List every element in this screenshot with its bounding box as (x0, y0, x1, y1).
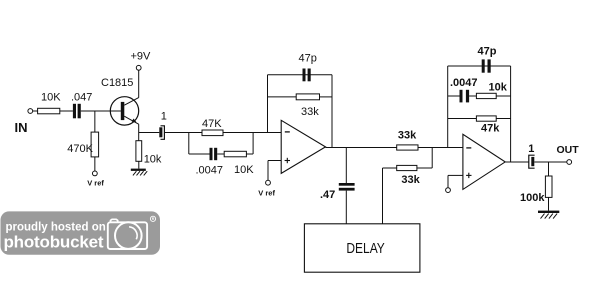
wire C2 to 47K (164, 132, 202, 134)
resistor 33k (U1 feedback) (296, 94, 319, 100)
svg-text:47k: 47k (481, 123, 500, 135)
wire .0047 to 10k (469, 95, 476, 97)
svg-text:.0047: .0047 (450, 77, 478, 89)
wire 100k to ground (548, 197, 550, 210)
svg-text:33k: 33k (301, 106, 319, 118)
capacitor 1 (coupling, polarized) (159, 126, 164, 140)
svg-text:1: 1 (161, 110, 167, 122)
capacitor .47 (339, 183, 355, 191)
resistor 47K (202, 130, 223, 136)
transistor Q1 C1815 (110, 97, 138, 125)
wire 10k to right vertical (496, 95, 510, 97)
resistor 470K (91, 132, 99, 157)
block DELAY (304, 224, 420, 272)
wire node to 470K (94, 111, 96, 132)
wire 33k top to U2 minus (418, 147, 463, 149)
svg-text:33k: 33k (398, 129, 417, 141)
resistor 10k (emitter) (136, 141, 142, 162)
wire node to 100k (548, 162, 550, 176)
wire cap to OUT terminal (534, 161, 567, 163)
terminal OUT (567, 160, 572, 165)
wire U2 feedback left vertical (447, 66, 449, 148)
wire C1 to Q1 base (81, 110, 121, 112)
svg-text:+9V: +9V (131, 50, 152, 62)
wire U1 feedback right vertical (331, 75, 333, 148)
wire join verticals (431, 148, 433, 169)
terminal U2 plus (446, 188, 451, 193)
capacitor .0047 (210, 148, 218, 160)
resistor 100k (545, 176, 552, 197)
wire U1 feedback left vertical (267, 75, 269, 133)
wire DELAY to 33k bottom (382, 168, 384, 224)
svg-text:DELAY: DELAY (346, 241, 385, 257)
wire U1 output row (326, 147, 397, 149)
ground 1 (131, 169, 147, 176)
svg-text:1: 1 (528, 143, 534, 155)
svg-text:photobucket: photobucket (4, 233, 104, 252)
wire branch down to .47 (345, 148, 347, 184)
ground 2 (538, 211, 559, 219)
wire 47K to op-amp U1 minus (223, 132, 281, 134)
resistor 10k (U2 feedback) (476, 93, 496, 98)
op-amp U1 (281, 120, 325, 173)
svg-text:OUT: OUT (557, 144, 580, 156)
wire R1 to C1 (60, 110, 73, 112)
svg-text:47K: 47K (202, 118, 222, 130)
resistor 10K (input) (38, 108, 60, 114)
resistor 33k top (397, 145, 418, 150)
wire 47k row left (448, 118, 477, 120)
input terminal IN (28, 109, 33, 114)
op-amp U2 (463, 134, 505, 189)
photobucket watermark badge (1, 211, 161, 254)
wire U1 plus input (268, 160, 281, 162)
wire +9V to collector (138, 70, 140, 97)
terminal +9V (136, 65, 141, 70)
wire branch down at node (188, 133, 190, 155)
wire U1 feedback top row (268, 74, 333, 76)
svg-text:33k: 33k (401, 174, 420, 186)
capacitor 47p (U1) (303, 69, 311, 82)
wire U2 feedback right vertical (510, 66, 512, 162)
terminal V ref 1 (92, 171, 97, 176)
svg-text:10k: 10k (489, 82, 508, 94)
wire U2 plus down (447, 175, 449, 187)
wire 470K to V ref terminal (94, 157, 96, 171)
wire 33k bottom left (383, 167, 397, 169)
svg-text:IN: IN (15, 120, 28, 135)
svg-text:10k: 10k (144, 154, 162, 166)
svg-text:.0047: .0047 (196, 165, 224, 177)
wire 33k row right (320, 96, 333, 98)
wire emitter node to 10k (138, 133, 140, 141)
capacitor .047 (73, 104, 81, 119)
wire input terminal to R1 (33, 110, 38, 112)
wire emitter down (138, 124, 140, 132)
wire 47k row right (496, 118, 510, 120)
svg-text:R: R (152, 217, 155, 221)
wire 33k row left (268, 96, 297, 98)
wire U2 output (505, 161, 529, 163)
svg-text:470K: 470K (67, 143, 93, 155)
resistor 33k bottom (397, 165, 417, 170)
resistor 47k (U2 feedback) (476, 116, 496, 121)
wire .0047 to 10K (217, 153, 224, 155)
wire 10k to ground (138, 161, 140, 168)
wire branch to .0047 (189, 153, 210, 155)
svg-text:.47: .47 (320, 189, 335, 201)
svg-text:V ref: V ref (87, 179, 104, 188)
wire U1 plus down (267, 161, 269, 181)
resistor 10K (branch) (224, 151, 246, 157)
terminal V ref 2 (266, 180, 271, 185)
wire 33k bottom right (417, 167, 432, 169)
camera icon (108, 216, 156, 249)
svg-text:100k: 100k (520, 192, 545, 204)
capacitor 1 (output, polarized) (529, 155, 535, 168)
svg-text:10K: 10K (234, 164, 254, 176)
capacitor .0047 (U2) (460, 90, 470, 103)
wire U2 plus input (448, 174, 463, 176)
wire branch right vertical (252, 133, 254, 155)
svg-text:.047: .047 (71, 92, 92, 104)
capacitor 47p (U2) (482, 59, 491, 72)
svg-text:47p: 47p (299, 53, 317, 65)
svg-text:47p: 47p (478, 46, 497, 58)
wire emitter row (139, 132, 160, 134)
wire .47 to DELAY (345, 191, 347, 224)
svg-text:C1815: C1815 (101, 77, 133, 89)
svg-text:V ref: V ref (258, 189, 275, 198)
wire middle row left (448, 95, 460, 97)
svg-text:10K: 10K (41, 92, 61, 104)
wire U2 feedback top row (448, 65, 511, 67)
wire branch up to main row (246, 153, 253, 155)
